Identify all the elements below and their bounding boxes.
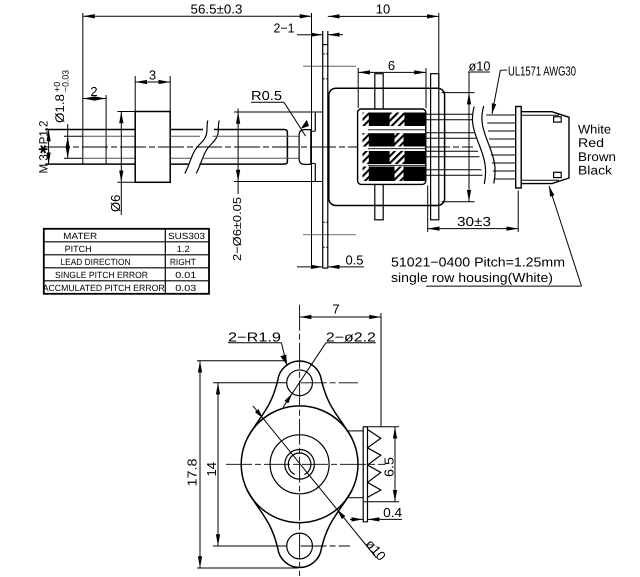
svg-text:MATER: MATER — [63, 231, 98, 241]
svg-text:10: 10 — [376, 2, 390, 17]
bobbin tab bottom left — [375, 206, 383, 220]
svg-text:single row housing(White): single row housing(White) — [391, 270, 553, 285]
bobbin tab top right — [431, 74, 439, 89]
svg-text:1.2: 1.2 — [177, 244, 190, 254]
hole centerline top (gray) — [303, 65, 356, 67]
pilot boss circle — [270, 435, 329, 494]
svg-text:UL1571 AWG30: UL1571 AWG30 — [508, 64, 576, 79]
housing leader — [426, 185, 582, 286]
svg-text:Red: Red — [578, 136, 604, 150]
connector housing — [521, 112, 569, 184]
motor can circle Ø10 — [241, 406, 358, 523]
svg-text:3: 3 — [149, 68, 156, 83]
top lobe arc R1.9 — [278, 361, 322, 380]
dimension 3 (collar width) — [135, 68, 170, 112]
dimension 2 (neck length) — [83, 84, 106, 130]
svg-text:2−Ø6±0.05: 2−Ø6±0.05 — [232, 197, 244, 261]
wire color labels — [578, 123, 616, 178]
flange top edge — [323, 44, 328, 46]
svg-text:6: 6 — [388, 58, 395, 73]
dimension 6 (coil width) — [358, 58, 426, 108]
thread root arc — [288, 453, 311, 475]
dimension 17.8 — [185, 361, 299, 568]
dimension 0.4 — [350, 505, 402, 520]
svg-text:SUS303: SUS303 — [168, 231, 205, 241]
flange bottom edge — [323, 267, 328, 269]
cable break S-curve right — [482, 106, 495, 184]
horizontal centerline — [226, 463, 386, 465]
terminal teeth — [368, 430, 381, 498]
strip to can connectors — [348, 430, 364, 432]
break S-curve right — [196, 121, 219, 174]
lead screw shaft M3 end section — [45, 130, 135, 165]
coil block outline — [358, 109, 426, 184]
svg-text:White: White — [578, 123, 611, 137]
svg-text:7: 7 — [332, 302, 339, 317]
top hole centerline dashes — [301, 382, 358, 384]
ear side bottom-left — [247, 490, 277, 548]
screw outer bottom left of break — [170, 163, 188, 165]
dimension 14 — [204, 383, 287, 546]
shaft circle — [285, 450, 315, 480]
motor body can — [329, 88, 445, 205]
inner wire lines between bars — [368, 129, 426, 131]
dimension 2-Ø6±0.05 — [232, 109, 323, 262]
dimension Ø1.8 +0/-0.03 — [52, 70, 71, 158]
ear side top-left — [247, 380, 277, 438]
bottom view group — [226, 305, 386, 576]
bottom lobe arc — [278, 549, 322, 568]
svg-text:PITCH: PITCH — [65, 244, 92, 254]
svg-text:Ø6: Ø6 — [108, 195, 123, 212]
svg-text:Brown: Brown — [578, 150, 616, 164]
dimension 6.5 — [364, 427, 399, 502]
thread root line lower (dark stub) — [64, 157, 83, 159]
label Ø10 with diagonal leader — [253, 406, 389, 564]
screw body right of break — [200, 130, 288, 165]
lead wires left of cable break — [426, 114, 483, 175]
mounting flange plate left line — [322, 31, 324, 268]
mounting flange plate right line — [327, 31, 329, 268]
screw root lines right of break — [213, 135, 300, 137]
ear side bottom-right — [321, 490, 352, 548]
root line lower to collar — [83, 157, 135, 159]
dimension 7 — [300, 302, 381, 428]
dimension Ø6 (collar) — [108, 112, 135, 216]
terminal strip plate — [363, 427, 367, 522]
dimension 2-1 (flange) — [274, 21, 344, 36]
svg-text:ø10: ø10 — [469, 59, 491, 74]
svg-text:ACCMULATED PITCH ERROR: ACCMULATED PITCH ERROR — [43, 283, 165, 293]
dimension 10 (motor length) — [328, 2, 439, 89]
collar — [135, 112, 170, 183]
bottom hole centerline dashes — [301, 545, 350, 547]
thread runout vertical x=106.1 — [105, 130, 107, 165]
spec table — [43, 229, 209, 294]
svg-text:14: 14 — [204, 462, 219, 476]
svg-text:LEAD DIRECTION: LEAD DIRECTION — [61, 257, 131, 267]
side view group — [44, 13, 569, 268]
connector note text — [391, 255, 565, 286]
svg-text:R0.5: R0.5 — [251, 88, 282, 103]
pilot boss front face — [314, 112, 316, 131]
root line upper to collar — [83, 135, 135, 137]
hatch segments left column — [363, 113, 369, 127]
svg-text:17.8: 17.8 — [185, 459, 200, 487]
svg-text:0.5: 0.5 — [346, 253, 364, 268]
dimension M 3*P1.2 — [36, 120, 50, 173]
svg-text:6.5: 6.5 — [382, 457, 397, 477]
shaft centerline — [44, 146, 473, 148]
coil bar 4 — [363, 167, 426, 182]
svg-text:0.03: 0.03 — [175, 283, 196, 293]
svg-text:2−1: 2−1 — [274, 21, 295, 36]
bobbin tab top left — [375, 74, 383, 89]
hole centerline bottom (gray) — [303, 234, 356, 236]
label 2-Ø2.2 with leader — [283, 329, 376, 407]
dimension 30±3 — [428, 186, 519, 233]
hidden hole lines in flange — [323, 53, 328, 55]
svg-text:−0.03: −0.03 — [61, 70, 71, 92]
vertical centerline — [299, 305, 301, 576]
screw root lines left of break — [170, 135, 200, 137]
coil bar 3 — [363, 151, 426, 164]
thread root line upper (dark stub) — [64, 135, 83, 137]
label R0.5 with leader — [251, 88, 310, 136]
thread runout vertical x=82.8 — [82, 130, 84, 165]
break S-curve left — [185, 121, 208, 174]
svg-text:0.4: 0.4 — [383, 505, 402, 520]
long extension line x=311.5 — [311, 13, 313, 268]
dimension 0.5 (flange thickness) — [297, 253, 364, 268]
connector header plate — [516, 107, 522, 189]
housing top seam — [521, 114, 559, 116]
screw tip cap R0.5 — [299, 130, 311, 165]
lead wires right of cable break — [486, 115, 516, 179]
hatch segments mid column — [390, 113, 405, 127]
cable break S-curve left — [472, 107, 485, 185]
bobbin flange columns right — [430, 88, 432, 205]
svg-text:2: 2 — [90, 84, 97, 99]
bobbin column stubs left — [374, 88, 376, 109]
dimension Ø10 (can dia) with label — [442, 59, 491, 202]
svg-text:RIGHT: RIGHT — [170, 257, 196, 267]
latch window bottom — [554, 172, 562, 177]
svg-text:30±3: 30±3 — [457, 214, 491, 229]
svg-text:M 3✱P1.2: M 3✱P1.2 — [36, 120, 50, 173]
label UL1571 AWG30 with leader — [490, 64, 576, 115]
boss hole stubs — [312, 130, 316, 132]
screw outer top left of break — [170, 129, 203, 131]
latch window top — [554, 117, 562, 122]
svg-text:Ø1.8: Ø1.8 — [53, 94, 67, 123]
svg-text:2−R1.9: 2−R1.9 — [228, 329, 281, 344]
bottom mounting hole — [287, 533, 313, 559]
housing bottom seam — [521, 179, 559, 181]
ear side top-right — [321, 380, 352, 438]
svg-text:56.5±0.3: 56.5±0.3 — [191, 2, 243, 17]
svg-text:51021−0400 Pitch=1.25mm: 51021−0400 Pitch=1.25mm — [391, 255, 565, 270]
coil bar 2 — [363, 133, 426, 146]
svg-text:0.01: 0.01 — [175, 270, 196, 280]
dimension 56.5±0.3 — [83, 2, 312, 130]
svg-text:SINGLE PITCH ERROR: SINGLE PITCH ERROR — [55, 270, 148, 280]
top mounting hole Ø2.2 — [287, 370, 313, 396]
svg-text:Black: Black — [578, 164, 613, 178]
svg-text:2−ø2.2: 2−ø2.2 — [326, 329, 376, 344]
label 2-R1.9 with leader — [228, 329, 287, 365]
bobbin tab bottom right — [431, 206, 439, 220]
coil bar 1 — [363, 113, 426, 127]
